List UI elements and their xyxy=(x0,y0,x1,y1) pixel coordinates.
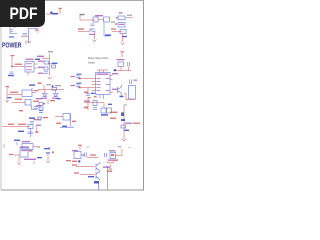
wire xyxy=(103,103,105,108)
net label xyxy=(108,104,112,105)
ground xyxy=(48,77,52,79)
resistor R2 xyxy=(118,23,125,28)
value label xyxy=(24,159,36,160)
regulator U5 xyxy=(22,90,32,97)
net label xyxy=(52,63,58,64)
wire xyxy=(30,129,32,138)
svg-text:PDF: PDF xyxy=(10,5,38,23)
capacitor C1 xyxy=(23,34,28,36)
capacitor C12 xyxy=(28,132,34,134)
regulator U2 xyxy=(25,62,34,73)
node VBUS xyxy=(50,12,52,14)
node dot xyxy=(78,160,80,162)
power tick xyxy=(16,142,18,145)
sheet note xyxy=(48,51,53,52)
regulator U6 xyxy=(22,144,33,150)
label U3 xyxy=(117,59,125,60)
net label xyxy=(101,114,108,116)
net label xyxy=(14,140,20,141)
junction xyxy=(52,152,54,154)
pin stubs xyxy=(92,79,96,91)
label Y1 xyxy=(20,146,29,147)
pin label xyxy=(111,21,115,22)
ground xyxy=(121,43,125,45)
net label xyxy=(35,59,40,60)
junction xyxy=(49,63,51,65)
net label xyxy=(34,119,39,120)
wire xyxy=(113,70,131,72)
sheet bottom border xyxy=(1,189,144,191)
wire xyxy=(110,165,112,168)
wire xyxy=(112,31,123,33)
power flag VIN xyxy=(11,57,13,61)
label C4 xyxy=(38,73,44,74)
power flag xyxy=(88,97,91,99)
resistor R5 xyxy=(52,65,56,68)
label U7 xyxy=(72,150,78,151)
diode D3 xyxy=(118,16,125,20)
wire xyxy=(70,114,72,127)
sheet note xyxy=(124,104,128,105)
oscillator Y1 xyxy=(20,148,28,157)
pin stub xyxy=(99,95,101,99)
label D4 xyxy=(41,98,47,99)
junction xyxy=(116,17,117,18)
capacitor C9 xyxy=(86,94,90,96)
transistor Q2 xyxy=(96,162,100,172)
net label xyxy=(133,123,140,124)
net label xyxy=(19,110,23,111)
power flag xyxy=(6,88,8,95)
pin stub xyxy=(34,67,38,69)
label R1 xyxy=(119,12,123,13)
ground xyxy=(122,139,126,142)
label U6 xyxy=(22,141,30,142)
IC U4 xyxy=(96,73,111,95)
label C6 xyxy=(134,80,138,81)
label D1 xyxy=(95,15,103,16)
wire xyxy=(126,17,134,19)
wire xyxy=(104,23,110,37)
junction xyxy=(79,87,81,89)
net label xyxy=(43,117,48,118)
PDF badge xyxy=(0,0,45,27)
value label xyxy=(108,159,118,161)
net label xyxy=(10,92,18,93)
net label xyxy=(37,157,42,158)
resistor R13 xyxy=(63,114,70,121)
battery connector BT1 xyxy=(129,86,136,100)
net label xyxy=(72,121,76,123)
label C8 xyxy=(71,85,76,86)
label R4 xyxy=(38,61,44,62)
node dot xyxy=(52,85,54,87)
net label xyxy=(34,90,39,91)
ground xyxy=(46,161,49,163)
net label xyxy=(72,161,77,162)
wire xyxy=(27,72,29,76)
wire xyxy=(94,32,96,39)
ground xyxy=(27,41,30,43)
net label xyxy=(74,172,79,173)
wire xyxy=(32,105,38,110)
wire xyxy=(60,127,74,129)
wire xyxy=(98,19,104,21)
regulator U1 top wire xyxy=(29,29,39,43)
wire xyxy=(87,157,98,159)
connector J1 xyxy=(10,27,17,34)
value label xyxy=(127,15,132,16)
value label xyxy=(46,84,51,85)
resistor R12 xyxy=(39,107,43,110)
value label xyxy=(55,85,61,86)
capacitor C11 xyxy=(30,122,34,124)
net label xyxy=(33,101,39,102)
pin stub xyxy=(43,85,45,90)
J1 pin labels xyxy=(13,26,17,27)
ground xyxy=(109,168,112,170)
wire xyxy=(107,166,109,190)
sheet note row xyxy=(37,147,131,148)
pin stub xyxy=(29,150,33,152)
sheet right border xyxy=(143,0,145,191)
capacitor C6 xyxy=(130,80,132,85)
label xyxy=(36,105,41,106)
diode D2 xyxy=(104,17,110,22)
junction xyxy=(79,78,81,80)
net label xyxy=(18,124,26,125)
wire xyxy=(21,36,29,38)
net tick xyxy=(25,41,27,45)
wire xyxy=(18,157,20,162)
label D5 xyxy=(52,98,58,99)
wire xyxy=(76,166,95,168)
label Q2 xyxy=(103,166,110,167)
net label xyxy=(72,164,77,165)
net label xyxy=(124,130,129,131)
capacitor C13 xyxy=(39,111,43,113)
capacitor C14 xyxy=(93,108,97,110)
net label xyxy=(66,160,71,161)
capacitor C16 xyxy=(84,153,86,158)
net label xyxy=(8,97,12,98)
wire xyxy=(123,106,125,139)
diode arc xyxy=(107,162,115,163)
wire xyxy=(6,95,8,100)
net label xyxy=(110,112,118,113)
pin stubs right xyxy=(110,76,113,93)
diode D4 xyxy=(43,94,48,97)
net label xyxy=(50,100,55,101)
net label xyxy=(94,181,99,184)
ground xyxy=(6,101,9,103)
svg-text:Battery Charge & Power: Battery Charge & Power xyxy=(88,56,109,60)
resistor R6 xyxy=(44,67,48,70)
svg-text:Switch: Switch xyxy=(88,60,96,64)
resistor R11 xyxy=(39,103,43,106)
Y1 pin names xyxy=(21,150,27,151)
resistor R9 xyxy=(25,100,31,106)
net label GND xyxy=(18,131,24,132)
net label xyxy=(110,118,116,119)
capacitor C5 xyxy=(128,62,130,67)
capacitor C2 xyxy=(91,24,95,26)
capacitor C7 xyxy=(76,76,80,79)
net label xyxy=(111,28,116,29)
wire xyxy=(36,127,38,132)
net label xyxy=(84,107,88,109)
transistor Q3 xyxy=(96,172,100,181)
capacitor C17 xyxy=(105,153,107,157)
net label xyxy=(120,96,124,98)
wire xyxy=(45,90,56,94)
net label xyxy=(78,28,84,29)
LED D7 xyxy=(121,112,124,116)
net label VBUS xyxy=(52,13,58,15)
ground xyxy=(17,163,20,165)
net label xyxy=(9,36,14,37)
wire xyxy=(80,16,95,21)
wire xyxy=(78,79,92,88)
label R2 xyxy=(119,24,124,25)
wire xyxy=(55,116,63,118)
wire xyxy=(98,181,100,190)
label U2 xyxy=(26,59,34,60)
net label +5V0 xyxy=(90,154,96,155)
net label xyxy=(107,171,112,172)
net label xyxy=(109,150,116,151)
power flag xyxy=(47,100,49,105)
power tick xyxy=(31,88,33,91)
net label xyxy=(62,126,67,127)
label SW1 xyxy=(89,34,95,35)
regulator U7 xyxy=(74,152,81,159)
ground xyxy=(93,40,97,42)
label R6 xyxy=(38,67,44,68)
net label +5V xyxy=(29,84,35,85)
wire xyxy=(84,102,104,104)
capacitor C15 xyxy=(46,152,50,154)
net label xyxy=(84,100,90,101)
net label xyxy=(9,154,13,155)
resistor R10 xyxy=(28,125,33,129)
wire xyxy=(87,99,89,110)
resistor R17 xyxy=(121,125,126,128)
net label xyxy=(91,93,95,94)
net label xyxy=(44,148,50,149)
resistor R14 xyxy=(93,101,97,106)
label U4 xyxy=(97,74,109,75)
net label GND xyxy=(122,36,127,37)
power flag +BATT xyxy=(121,53,123,58)
power flag xyxy=(38,82,42,84)
sheet top border xyxy=(1,0,144,2)
capacitor C3 xyxy=(10,72,14,74)
net label xyxy=(35,131,38,133)
net label xyxy=(84,92,88,94)
capacitor C8 xyxy=(76,85,80,88)
power tick xyxy=(33,161,35,164)
power flag +5V xyxy=(59,9,61,14)
net label xyxy=(15,64,22,65)
net label xyxy=(29,117,35,119)
wire xyxy=(42,54,50,76)
wire xyxy=(13,154,20,156)
power flag xyxy=(79,146,81,150)
wire xyxy=(47,155,49,161)
net label +BATT xyxy=(37,56,44,58)
net label +5V xyxy=(80,14,85,16)
wire xyxy=(78,31,89,33)
diode D5 xyxy=(54,94,59,97)
net label xyxy=(8,124,14,125)
resistor R16 xyxy=(107,108,112,113)
junction xyxy=(43,103,45,105)
net label xyxy=(56,123,61,124)
wire xyxy=(87,88,89,93)
wire xyxy=(116,149,123,156)
resistor R7 xyxy=(118,62,124,67)
wire xyxy=(80,174,95,176)
switch SW1 xyxy=(89,29,96,32)
label xyxy=(36,125,41,126)
sheet left border xyxy=(0,0,2,190)
junction xyxy=(115,23,117,25)
power flag xyxy=(94,96,97,98)
wire xyxy=(2,126,30,128)
pin stub xyxy=(37,29,39,33)
wire xyxy=(12,102,25,104)
capacitor C10 xyxy=(34,107,39,109)
pin stub xyxy=(82,154,85,155)
wire xyxy=(38,89,64,91)
wire xyxy=(122,34,124,43)
wire xyxy=(46,13,58,15)
capacitor C4 xyxy=(44,72,48,74)
value label xyxy=(35,30,38,31)
pin stub xyxy=(121,67,129,71)
LED D8 xyxy=(121,119,125,121)
node dot xyxy=(114,69,116,71)
net label xyxy=(112,73,118,74)
resistor R8 xyxy=(52,87,57,90)
resistor R3 xyxy=(120,30,126,34)
net label xyxy=(15,99,22,100)
resistor R4 xyxy=(44,61,49,64)
pin stub xyxy=(34,63,38,65)
wire xyxy=(33,146,40,148)
diode D6 xyxy=(38,117,43,120)
pin stub xyxy=(103,95,105,100)
wire xyxy=(12,60,25,67)
wire xyxy=(124,94,135,100)
net label xyxy=(88,176,94,177)
net label PWR_SW xyxy=(105,34,111,36)
transistor Q1 xyxy=(118,85,122,95)
wire xyxy=(7,94,22,96)
label Q1 xyxy=(112,89,117,90)
U2 pin names xyxy=(26,63,32,70)
resistor R15 xyxy=(101,108,106,113)
junction xyxy=(11,66,13,68)
diode D1 xyxy=(93,17,98,22)
U8 pin xyxy=(111,154,114,156)
pin stub xyxy=(32,92,36,94)
label C7 xyxy=(71,76,76,77)
label xyxy=(36,98,42,99)
U4 pin names xyxy=(97,78,110,91)
label C3 xyxy=(8,75,14,76)
power tick xyxy=(3,145,5,149)
net label xyxy=(57,98,61,99)
svg-text:POWER: POWER xyxy=(2,42,22,49)
wire xyxy=(97,70,108,73)
regulator U8 xyxy=(110,153,116,159)
sheet note xyxy=(118,146,122,147)
label xyxy=(125,123,132,124)
